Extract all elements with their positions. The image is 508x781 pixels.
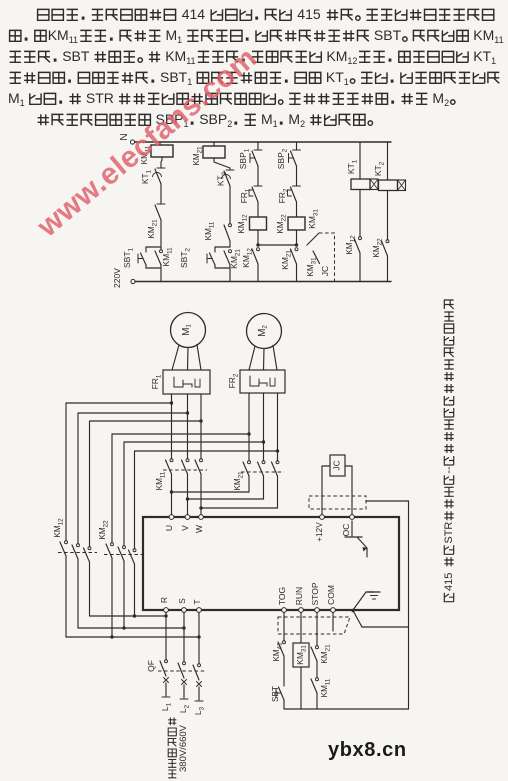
- paragraph text line 6: [38, 111, 373, 129]
- circuit breaker QF (3-pole): [146, 660, 205, 687]
- wire FR2 phase U drop: [247, 393, 250, 461]
- svg-text:S: S: [177, 598, 187, 604]
- wire T to QF: [198, 613, 200, 665]
- wire rung6 coil to KM22 contact: [387, 191, 389, 241]
- svg-text:JC: JC: [320, 266, 330, 276]
- timer contact KT2 (delay NC): [217, 170, 234, 186]
- wires KM11 to U V W terminals: [170, 474, 203, 517]
- wire STOP drop: [316, 613, 318, 647]
- contact KM22 in rung6: [372, 238, 389, 282]
- svg-text:STOP: STOP: [310, 582, 320, 605]
- wire rung3 top stub: [257, 142, 259, 150]
- svg-text:R: R: [159, 597, 169, 603]
- wire L2 lead: [178, 685, 190, 713]
- wire rung1 to parallel start section: [160, 220, 162, 247]
- terminal TOG: [277, 587, 287, 613]
- wire L3 lead: [193, 687, 205, 715]
- contact KM31 branch (diagonal): [307, 209, 319, 245]
- wire R to QF: [165, 613, 167, 661]
- stop button SBP1 (NC): [238, 148, 262, 169]
- contactor coil KM31: [293, 643, 309, 667]
- timer contact KT1 (delay NC): [141, 168, 165, 184]
- timer coil KT1: [346, 159, 378, 189]
- contact KM31 on TOG wire: [272, 641, 285, 662]
- contact KM21 on STOP wire: [311, 644, 331, 664]
- contactor contacts KM21 (3-pole): [233, 461, 284, 491]
- wires KM21 down to UVW junctions: [172, 476, 278, 508]
- relay coil JC: [330, 455, 345, 476]
- wire FR1 phase U drop: [170, 394, 173, 459]
- wires motor M2 to FR2: [249, 346, 277, 371]
- svg-text:TOG: TOG: [277, 587, 287, 605]
- wire STOP mid: [316, 661, 318, 678]
- paragraph text line 5: [8, 90, 455, 108]
- wire L1 lead: [160, 683, 172, 711]
- dashed branch with relay contact JC: [306, 233, 334, 282]
- wire bypass bus KM12 pole1: [66, 403, 172, 541]
- wire JC to OC: [345, 466, 352, 515]
- wire dashed block to right rail: [366, 501, 409, 709]
- timer coil KT2: [373, 161, 405, 190]
- contact KM11 NO in rung2: [204, 221, 231, 241]
- wire KM22 poles down to RST taps: [112, 558, 135, 637]
- label three-phase AC source: [168, 718, 189, 778]
- wire rung4 FR2 to coil: [296, 202, 298, 217]
- svg-text:+12V: +12V: [315, 522, 324, 542]
- node N (neutral rail): [119, 133, 391, 144]
- svg-text:414: 414: [182, 6, 206, 22]
- motor M1: [171, 313, 206, 348]
- terminal T: [192, 599, 202, 612]
- wire RUN below coil: [300, 667, 302, 709]
- contact KM12 in rung5: [345, 235, 361, 282]
- wire TOG drop: [283, 613, 285, 642]
- svg-text:STR: STR: [86, 90, 114, 106]
- terminal +12V: [315, 515, 324, 542]
- contactor contacts KM11 (3-pole): [155, 459, 207, 491]
- wire tap line to S: [78, 626, 186, 629]
- wire rung4 top stub: [296, 142, 298, 150]
- contact KM11 on STOP wire: [311, 678, 331, 698]
- wire rung3 SBP1 to FR1: [257, 166, 259, 186]
- contactor coil KM12: [237, 214, 266, 234]
- paragraph text line 4: [10, 69, 500, 87]
- terminal R: [159, 597, 169, 612]
- svg-text:415: 415: [297, 6, 321, 22]
- svg-text:SBT: SBT: [62, 48, 90, 64]
- start button SBT1 with parallel holding contact KM11: [122, 247, 173, 282]
- holding contact KM21 in rung4: [280, 248, 298, 282]
- wire STOP to bottom link: [316, 693, 318, 709]
- wire FR1 phase V drop: [186, 394, 189, 459]
- svg-text:W: W: [194, 525, 204, 533]
- node 220V (phase rail): [112, 268, 391, 288]
- transistor OC output: [345, 521, 367, 557]
- dashed connector block (JC socket): [309, 496, 366, 509]
- figure caption 415: [443, 300, 455, 602]
- svg-text:T: T: [192, 599, 202, 604]
- terminal COM: [326, 585, 336, 612]
- svg-text:SBT: SBT: [271, 686, 280, 702]
- svg-text:OC: OC: [341, 524, 351, 537]
- wire FR2 phase V drop: [262, 393, 265, 461]
- motor M2: [247, 314, 282, 349]
- wire rung5 top: [359, 142, 361, 179]
- wire bottom link: [284, 708, 409, 710]
- svg-text:SBT: SBT: [374, 27, 402, 43]
- svg-text:U: U: [164, 525, 174, 531]
- wire KM12 poles down to RST taps: [66, 556, 90, 637]
- paragraph text line 2: [10, 27, 504, 45]
- ground symbol inside STR: [353, 592, 380, 610]
- terminal STOP: [310, 582, 320, 612]
- wire TOG to SBT: [283, 656, 285, 686]
- wire rung3 coil to node: [256, 230, 259, 247]
- wire rung3 FR1 to coil: [257, 202, 259, 217]
- svg-text:--: --: [443, 466, 455, 474]
- holding contact KM12 in rung3: [241, 248, 259, 282]
- wire S to QF: [183, 613, 185, 663]
- thermal relay FR1: [150, 370, 210, 394]
- wire bypass bus KM22 pole2: [124, 442, 264, 546]
- svg-text:415: 415: [443, 573, 455, 591]
- wire link rung3-rung4: [258, 244, 297, 246]
- dashed terminal strip below STR: [278, 617, 350, 634]
- wire FR1 phase W drop: [199, 394, 202, 459]
- wire rung4 SBP2 to FR2: [296, 166, 298, 186]
- wire bypass bus KM22 pole3: [135, 451, 278, 549]
- wire tap line to R: [90, 614, 168, 617]
- svg-text:QF: QF: [146, 660, 156, 672]
- contactor coil KM22: [276, 214, 305, 234]
- wire rung5 coil to KM12 contact: [359, 190, 361, 238]
- wire FR2 phase W drop: [276, 393, 279, 461]
- terminal OC: [341, 515, 354, 537]
- wire bypass bus KM12 pole3: [90, 421, 202, 547]
- wire rung1 coil to KT1 contact: [161, 157, 162, 168]
- wires motor M1 to FR1: [172, 345, 201, 371]
- svg-text:ybx8.cn: ybx8.cn: [328, 739, 407, 761]
- svg-text:COM: COM: [326, 585, 336, 605]
- svg-text:380V/660V: 380V/660V: [178, 724, 189, 772]
- contactor contacts KM12 (3-pole bypass): [53, 518, 97, 562]
- soft starter STR box: [143, 517, 399, 610]
- wire SBT to bottom link: [283, 700, 285, 709]
- wire tap line to T: [66, 635, 201, 638]
- wire RUN drop: [300, 613, 302, 644]
- svg-text:220V: 220V: [112, 268, 122, 288]
- wire rung4 coil to node: [295, 230, 298, 247]
- svg-text:JC: JC: [333, 460, 342, 470]
- start button SBT2 with parallel holding contact KM21: [179, 241, 241, 282]
- contact KM21 NC in rung1: [147, 204, 165, 239]
- wire JC to +12V: [322, 466, 330, 515]
- terminal RUN: [294, 587, 304, 613]
- svg-text:STR: STR: [443, 522, 455, 544]
- terminal W: [194, 515, 204, 533]
- svg-text:RUN: RUN: [294, 587, 304, 605]
- terminal S: [177, 598, 187, 613]
- thermal overload contact FR1: [239, 186, 262, 203]
- paragraph text line 1: [38, 6, 494, 22]
- wire rung6 top: [387, 142, 389, 180]
- terminal V: [180, 515, 190, 531]
- terminal U: [164, 515, 174, 531]
- wire rung1 KT1 to KM21 contact: [160, 184, 162, 204]
- wire rung2 top stub: [213, 142, 215, 146]
- svg-text:V: V: [180, 525, 190, 531]
- junction bottom edge to external ground loop: [351, 609, 408, 627]
- button SBT: [271, 686, 284, 702]
- wire rung1 top stub: [159, 142, 161, 145]
- wire bypass bus KM12 pole2: [78, 413, 188, 544]
- contactor coil KM11: [140, 145, 173, 164]
- thermal relay FR2: [227, 370, 285, 393]
- contactor contacts KM22 (3-pole bypass): [98, 520, 142, 564]
- stop button SBP2 (NC): [276, 148, 300, 169]
- wire COM drop: [332, 613, 334, 632]
- contactor coil KM21: [192, 146, 225, 166]
- thermal overload contact FR2: [277, 186, 300, 203]
- paragraph text line 3: [10, 48, 497, 66]
- wire rung2 KT2 to KM11 contact: [229, 186, 231, 224]
- wire rung2 coil to KT2: [214, 158, 230, 170]
- wire bypass bus KM22 pole1: [112, 434, 249, 543]
